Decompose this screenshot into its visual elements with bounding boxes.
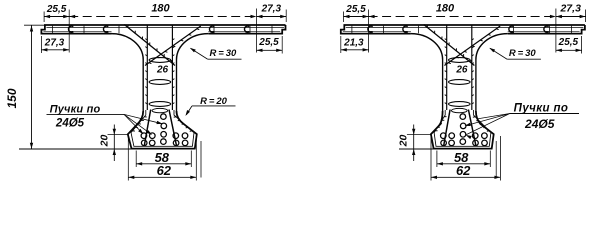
lower-left dim line bbox=[41, 49, 69, 51]
tendon bundle circle 4 bbox=[449, 140, 455, 146]
top dim line 25.5 segment bbox=[344, 16, 369, 18]
arrows 25.5 bbox=[44, 15, 50, 18]
svg-text:62: 62 bbox=[456, 163, 471, 178]
tendon bundle circle 1 bbox=[141, 133, 147, 139]
stirrup loop 1 bbox=[149, 58, 171, 63]
leader to circle 3 bbox=[477, 114, 510, 120]
svg-text:25,5: 25,5 bbox=[258, 37, 279, 48]
diagonal bar right bbox=[444, 26, 500, 66]
tendon bundle circle 1 bbox=[441, 133, 447, 139]
diagonal bar left hatch bbox=[127, 25, 129, 28]
dim 58 ext right bbox=[489, 151, 491, 168]
label underline bbox=[510, 113, 579, 115]
lower-right arrows bbox=[257, 49, 263, 52]
top dim line 25.5 segment bbox=[44, 16, 69, 18]
tendon bundle circle 11 bbox=[173, 140, 179, 146]
lower-right dim ext bbox=[281, 36, 283, 54]
dim 62 line bbox=[431, 176, 500, 178]
tendon bundle circle 10 bbox=[482, 133, 488, 139]
tendon bundle circle 12 bbox=[182, 140, 188, 146]
haunch fillet left R30 bbox=[411, 34, 443, 60]
svg-text:26: 26 bbox=[455, 65, 468, 76]
slab stirrup tick 3 bbox=[118, 26, 120, 34]
slab C hook 2 bbox=[104, 26, 109, 32]
dim 62 arrows bbox=[128, 176, 134, 179]
slab stirrup tick 6 bbox=[570, 26, 572, 34]
dim 20 vertical line bbox=[413, 125, 415, 162]
slab outline bbox=[341, 25, 585, 34]
web inner rebar line left bbox=[446, 25, 448, 110]
web inner rebar line right bbox=[471, 25, 473, 110]
dim 62 ext right bbox=[499, 136, 501, 181]
dim 20 top tick bbox=[108, 134, 128, 136]
leader to circle 1 bbox=[465, 114, 510, 126]
lower-left arrows bbox=[41, 48, 47, 51]
svg-text:R = 30: R = 30 bbox=[210, 48, 237, 59]
top dim extension B bbox=[368, 10, 370, 53]
diagonal bar right bbox=[145, 26, 201, 66]
diagonal bar right hatch bbox=[496, 28, 499, 31]
stirrup loop 2 bbox=[449, 80, 471, 85]
top dim extension A bbox=[343, 12, 345, 23]
dim 58 ext left bbox=[436, 151, 438, 168]
base extension line bbox=[399, 148, 438, 150]
slab C hook 4 bbox=[544, 26, 549, 32]
bulb hatch left slope bbox=[144, 116, 146, 118]
bulb outline bbox=[128, 111, 197, 149]
slab stirrup tick 6 bbox=[271, 26, 273, 34]
bulb divider right bbox=[169, 110, 177, 147]
slab top rebar line bbox=[46, 27, 284, 29]
tendon bundle circle 6 bbox=[460, 123, 466, 129]
svg-text:Пучки по: Пучки по bbox=[514, 102, 569, 114]
svg-text:180: 180 bbox=[151, 3, 170, 15]
label R=30 leader bbox=[507, 58, 541, 60]
dim 20 arrows bbox=[412, 129, 415, 135]
stirrup loop small bbox=[452, 108, 468, 112]
tendon bundle circle 2 bbox=[449, 133, 455, 139]
tendon bundle circle 5 bbox=[460, 114, 466, 120]
slab stirrup tick 1 bbox=[52, 26, 54, 34]
label R=20 leader bbox=[192, 105, 236, 107]
dim 58 arrows bbox=[437, 162, 443, 165]
diagonal bar left bbox=[424, 25, 475, 66]
top dim line 27.3 segment bbox=[257, 16, 287, 18]
top dim extension B bbox=[68, 10, 70, 53]
arrows 27.3 bbox=[556, 15, 562, 18]
bulb hatch right slope bbox=[473, 116, 475, 118]
slab stirrup tick 3 bbox=[417, 26, 419, 34]
dim 58 ext right bbox=[190, 151, 192, 168]
dim 62 ext left bbox=[430, 136, 432, 181]
web outer edge right bbox=[475, 60, 477, 112]
web hatch ticks right bbox=[172, 39, 174, 40]
haunch fillet right R30 bbox=[177, 34, 209, 60]
tendon bundle circle 3 bbox=[441, 140, 447, 146]
dim 150 arrows bbox=[30, 26, 33, 32]
slab stirrup tick 5 bbox=[249, 26, 251, 34]
tendon bundle circle 7 bbox=[161, 132, 167, 138]
slab stirrup tick 4 bbox=[512, 26, 514, 34]
slab C hook 4 bbox=[245, 26, 250, 32]
svg-text:27,3: 27,3 bbox=[559, 3, 581, 15]
diagonal bar right hatch bbox=[197, 28, 200, 31]
top dim line 27.3 segment bbox=[556, 16, 586, 18]
slab C hook 3 bbox=[509, 26, 514, 32]
slab stirrup tick 2 bbox=[382, 26, 384, 34]
dim 150 top tick bbox=[24, 24, 44, 26]
tendon bundle circle 11 bbox=[473, 140, 479, 146]
arrows 27.3 bbox=[257, 15, 263, 18]
slab stirrup tick 1 bbox=[351, 26, 353, 34]
top dim extension A bbox=[43, 12, 45, 23]
lower-right dim ext bbox=[581, 36, 583, 54]
svg-text:20: 20 bbox=[398, 135, 410, 148]
bulb stirrup inner line bbox=[434, 110, 491, 146]
dim 58 line bbox=[136, 163, 191, 165]
stirrup loop 2 bbox=[149, 80, 171, 85]
svg-text:20: 20 bbox=[98, 135, 110, 148]
lower-right dim line bbox=[257, 49, 283, 51]
dim 58 ext left bbox=[135, 151, 137, 168]
base extension line bbox=[19, 148, 132, 150]
tendon bundle circle 4 bbox=[149, 140, 155, 146]
slab C hook 3 bbox=[210, 26, 215, 32]
lower-right arrows bbox=[556, 49, 562, 52]
bulb hatch right slope bbox=[174, 116, 176, 119]
extra ext right bbox=[495, 141, 497, 178]
haunch fillet right R30 bbox=[476, 34, 508, 60]
arrows 25.5 bbox=[344, 15, 350, 18]
web outer edge right bbox=[176, 60, 178, 112]
stirrup loop small bbox=[152, 108, 168, 112]
bulb stirrup inner line bbox=[131, 110, 194, 146]
label R=30 leader bbox=[208, 58, 242, 60]
dim 62 arrows bbox=[431, 176, 437, 179]
tendon bundle circle 8 bbox=[161, 139, 167, 145]
tendon bundle circle 9 bbox=[472, 133, 478, 139]
diagonal bar left bbox=[124, 25, 175, 66]
arrows 180 bbox=[69, 15, 75, 18]
bulb hatch left slope bbox=[444, 116, 446, 118]
diagonal bar left hatch bbox=[426, 25, 428, 28]
tendon bundle circle 10 bbox=[182, 133, 188, 139]
slab top rebar line bbox=[346, 27, 584, 29]
arrows 180 bbox=[369, 15, 375, 18]
stirrup loop 1 bbox=[449, 58, 471, 63]
tendon bundle circle 8 bbox=[460, 139, 466, 145]
web hatch ticks left bbox=[145, 39, 147, 40]
leader to circle 2 bbox=[466, 114, 510, 135]
top dim extension C bbox=[555, 9, 557, 53]
dim 58 arrows bbox=[136, 162, 142, 165]
tendon bundle circle 12 bbox=[482, 140, 488, 146]
tendon bundle circle 6 bbox=[161, 123, 167, 129]
slab C hook 1 bbox=[69, 26, 74, 32]
leader to circle 2 bbox=[124, 114, 152, 134]
bulb divider left bbox=[444, 110, 451, 147]
svg-text:27,3: 27,3 bbox=[44, 38, 65, 49]
tendon bundle circle 2 bbox=[150, 133, 156, 139]
tendon bundle circle 9 bbox=[173, 133, 179, 139]
top dim extension D bbox=[285, 10, 287, 23]
svg-text:21,3: 21,3 bbox=[343, 38, 364, 49]
top dim line 180 segment bbox=[69, 16, 256, 18]
slab stirrup tick 5 bbox=[548, 26, 550, 34]
svg-text:150: 150 bbox=[5, 88, 19, 108]
lower-left dim ext bbox=[340, 36, 342, 53]
bulb divider right bbox=[468, 110, 476, 147]
svg-text:26: 26 bbox=[156, 65, 169, 76]
leader to circle 1 bbox=[124, 114, 143, 133]
svg-text:24Ø5: 24Ø5 bbox=[55, 118, 85, 130]
svg-text:R = 20: R = 20 bbox=[200, 96, 227, 107]
extra ext right bbox=[200, 141, 202, 178]
lower-left dim ext bbox=[40, 36, 42, 53]
svg-text:25,5: 25,5 bbox=[558, 37, 579, 48]
svg-text:R = 30: R = 30 bbox=[509, 48, 536, 59]
lower-left arrows bbox=[341, 48, 347, 51]
haunch fillet left R30 bbox=[112, 34, 144, 60]
label underline bbox=[47, 113, 125, 115]
stirrup loop 3 bbox=[149, 102, 171, 107]
top dim extension D bbox=[585, 10, 587, 23]
web inner rebar line right bbox=[171, 25, 173, 110]
svg-text:24Ø5: 24Ø5 bbox=[524, 117, 555, 131]
dim 62 line bbox=[128, 176, 196, 178]
lower-left dim line bbox=[341, 49, 369, 51]
svg-text:180: 180 bbox=[436, 3, 455, 15]
tendon bundle circle 3 bbox=[141, 140, 147, 146]
dim 20 arrows bbox=[113, 129, 116, 135]
dim 20 top tick bbox=[407, 134, 431, 136]
web inner rebar line left bbox=[146, 25, 148, 110]
tendon bundle circle 5 bbox=[161, 114, 167, 120]
bulb divider left bbox=[144, 110, 151, 147]
leader to circle 3 bbox=[124, 114, 162, 123]
slab bottom rebar line bbox=[43, 30, 111, 32]
dim 62 ext left bbox=[127, 136, 129, 181]
web hatch ticks right bbox=[472, 39, 474, 40]
dim 62 ext right bbox=[195, 136, 197, 181]
stirrup loop 3 bbox=[449, 102, 471, 107]
web hatch ticks left bbox=[445, 39, 447, 40]
slab stirrup tick 4 bbox=[213, 26, 215, 34]
web outer edge left bbox=[442, 60, 444, 112]
svg-text:25,5: 25,5 bbox=[345, 4, 366, 15]
slab bottom rebar line bbox=[343, 30, 411, 32]
top dim line 180 segment bbox=[369, 16, 556, 18]
svg-text:62: 62 bbox=[157, 163, 172, 178]
web outer edge left bbox=[142, 60, 144, 112]
dim 150 vertical line bbox=[31, 26, 33, 149]
slab outline bbox=[41, 25, 285, 34]
slab C hook 2 bbox=[403, 26, 408, 32]
svg-text:25,5: 25,5 bbox=[46, 4, 67, 15]
slab C hook 1 bbox=[368, 26, 373, 32]
tendon bundle circle 7 bbox=[460, 132, 466, 138]
bulb outline bbox=[431, 111, 494, 149]
slab stirrup tick 2 bbox=[83, 26, 85, 34]
svg-text:27,3: 27,3 bbox=[261, 4, 282, 15]
svg-text:Пучки по: Пучки по bbox=[50, 103, 101, 115]
dim 20 vertical line bbox=[113, 125, 115, 162]
dim 58 line bbox=[437, 163, 490, 165]
top dim extension C bbox=[256, 9, 258, 53]
lower-right dim line bbox=[556, 49, 582, 51]
